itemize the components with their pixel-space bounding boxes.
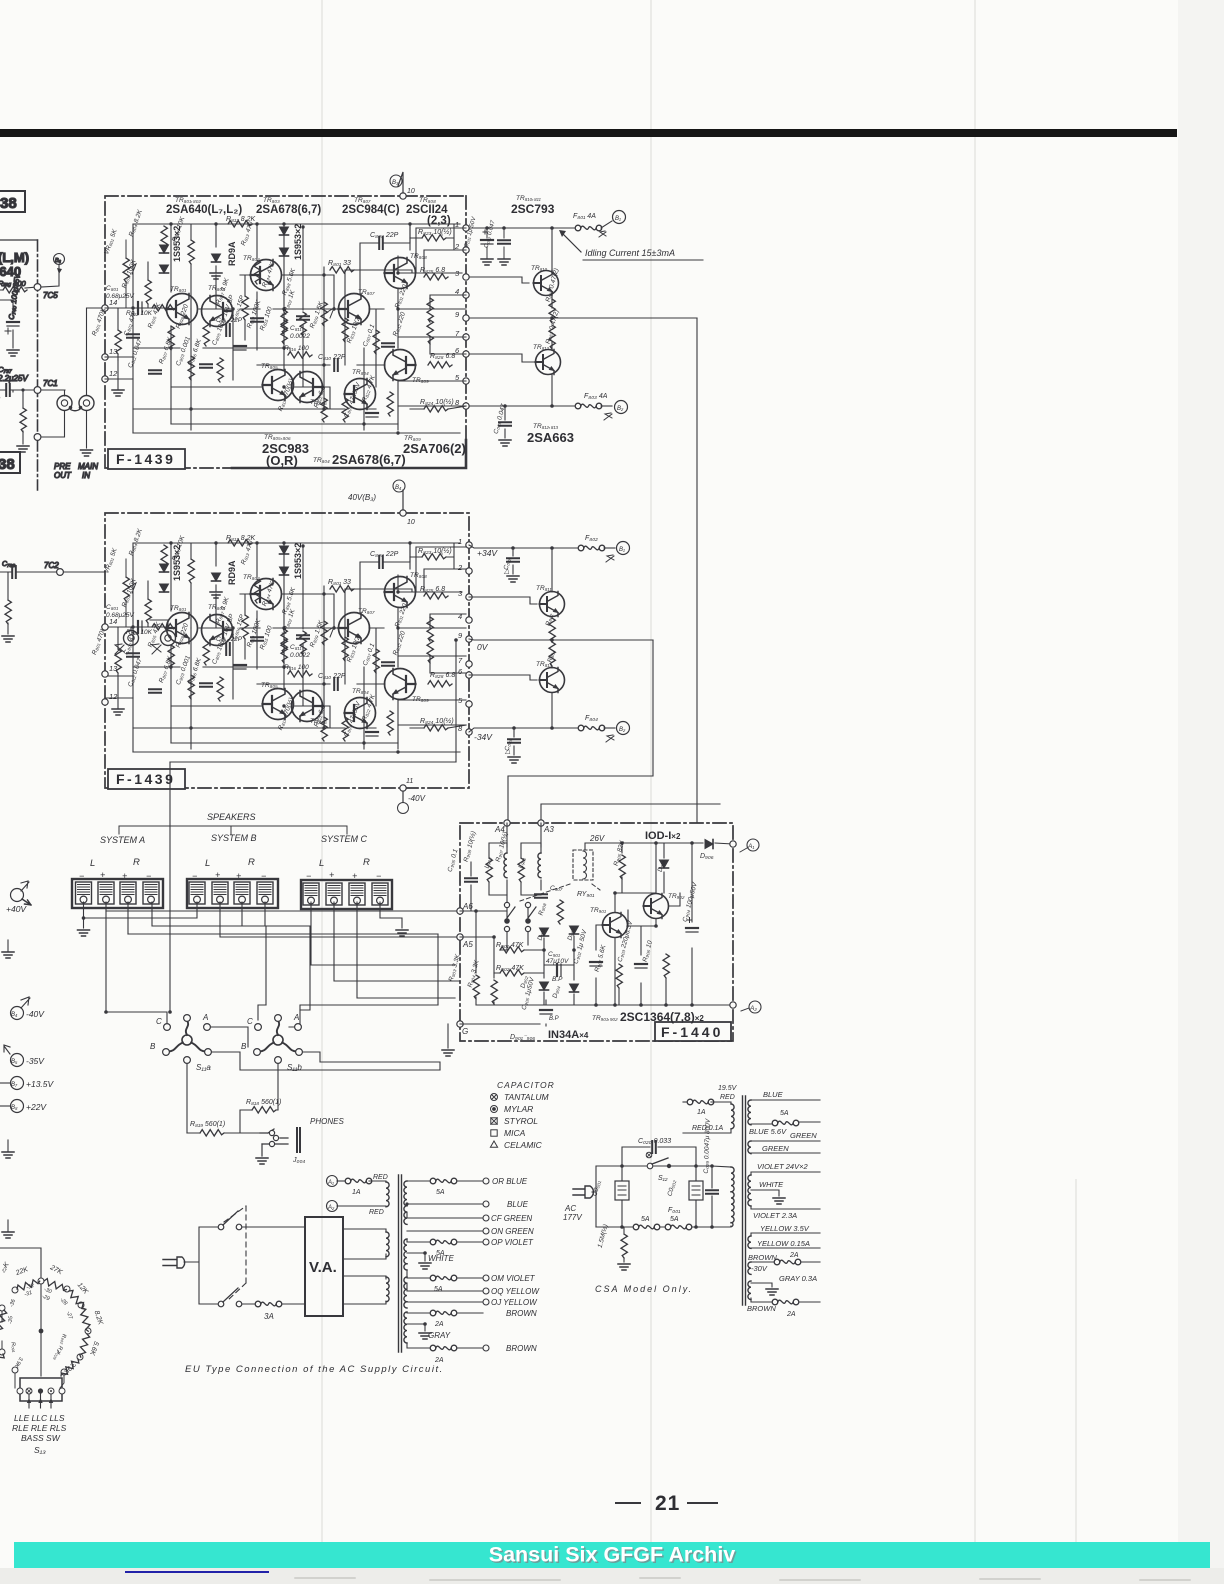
wire long return bbox=[169, 762, 171, 1012]
svg-text:-40V: -40V bbox=[408, 794, 426, 803]
pin A4 bbox=[504, 820, 510, 826]
capacitor C904 100u50V bbox=[686, 928, 698, 932]
svg-text:1: 1 bbox=[458, 537, 462, 546]
capacitor C038 bbox=[507, 558, 519, 562]
terminal -40V bbox=[11, 1007, 24, 1020]
svg-text:F-1439: F-1439 bbox=[116, 771, 175, 787]
fuse 5A csa bbox=[633, 1224, 660, 1230]
svg-text:GREEN: GREEN bbox=[762, 1144, 789, 1153]
TR812 collector/emitter bbox=[551, 341, 553, 406]
pin A6 bbox=[457, 908, 463, 914]
csa circuit wires bbox=[592, 1147, 731, 1233]
svg-text:TR₈₁₂: TR₈₁₂ bbox=[533, 344, 549, 351]
svg-text:A₂: A₂ bbox=[749, 1005, 757, 1012]
svg-text:F₈₀₂: F₈₀₂ bbox=[585, 535, 598, 542]
connector box 38 (lower) bbox=[0, 452, 20, 473]
svg-text:TR₈₀₁: TR₈₀₁ bbox=[170, 286, 186, 293]
wire TR811 collector and emitter bbox=[551, 548, 553, 618]
inductor L901 bbox=[538, 853, 541, 878]
svg-text:1A: 1A bbox=[697, 1109, 706, 1116]
wires V.A. to primary bbox=[343, 1229, 386, 1304]
svg-text:B₁: B₁ bbox=[615, 216, 621, 222]
svg-text:5.6K: 5.6K bbox=[88, 1340, 100, 1356]
svg-text:VIOLET 24V×2: VIOLET 24V×2 bbox=[757, 1162, 808, 1171]
ground below G bbox=[447, 1024, 449, 1048]
resistor 12K bbox=[67, 1289, 88, 1311]
svg-text:CAPACITOR: CAPACITOR bbox=[497, 1080, 555, 1090]
transistor TR810 bbox=[534, 271, 559, 296]
svg-text:R₈₃₂ 220: R₈₃₂ 220 bbox=[392, 311, 407, 337]
svg-text:-35V: -35V bbox=[26, 1056, 45, 1066]
diode D905 bbox=[660, 860, 669, 868]
svg-text:B₆: B₆ bbox=[55, 258, 62, 264]
fuse 2A brown bbox=[430, 1310, 457, 1316]
stray left components bbox=[0, 1261, 11, 1274]
svg-text:VIOLET 2.3A: VIOLET 2.3A bbox=[753, 1211, 797, 1220]
ground A minus bbox=[84, 902, 198, 918]
svg-text:+: + bbox=[329, 870, 334, 880]
diode D903 bbox=[570, 926, 579, 934]
capacitor C037 1u50V bbox=[481, 240, 493, 244]
pins 12-14 left edge bbox=[102, 305, 108, 382]
svg-text:S₁₃: S₁₃ bbox=[34, 1445, 46, 1455]
svg-text:F₀₀₁: F₀₀₁ bbox=[668, 1207, 681, 1214]
fuse 2A bottom csa bbox=[772, 1299, 799, 1305]
svg-text:B.P: B.P bbox=[552, 976, 563, 983]
svg-text:V.A.: V.A. bbox=[309, 1259, 337, 1276]
bottom teal banner bbox=[14, 1542, 1210, 1568]
svg-text:OUT: OUT bbox=[54, 471, 72, 480]
fuse 5A violet bbox=[430, 1239, 457, 1245]
svg-text:177V: 177V bbox=[563, 1213, 582, 1222]
wire pin1 to fuse bbox=[469, 227, 578, 229]
pins right edge bbox=[466, 542, 472, 735]
svg-text:3A: 3A bbox=[264, 1312, 274, 1321]
resistor R771 47K bbox=[22, 390, 24, 444]
svg-text:-30V: -30V bbox=[751, 1264, 768, 1273]
svg-text:2A: 2A bbox=[434, 1321, 444, 1328]
fuse F001 5A bbox=[665, 1224, 692, 1230]
terminal A2 bbox=[327, 1201, 338, 1212]
fuse 5A blue bbox=[772, 1120, 799, 1126]
svg-text:B₂: B₂ bbox=[617, 406, 624, 412]
wire TR813 bbox=[551, 666, 553, 728]
resistor R908 10(1/2) bbox=[486, 858, 492, 882]
svg-text:TR₈₁₀: TR₈₁₀ bbox=[531, 265, 547, 272]
block border F-1439 bbox=[105, 196, 466, 468]
svg-text:10: 10 bbox=[407, 188, 415, 195]
svg-text:S₁₁b: S₁₁b bbox=[287, 1063, 302, 1072]
svg-text:1S953×2: 1S953×2 bbox=[293, 224, 303, 260]
svg-text:B₇: B₇ bbox=[11, 1082, 18, 1088]
output terminals bbox=[483, 1178, 489, 1351]
capacitor C029 bbox=[706, 1190, 718, 1194]
relay switch contacts bbox=[504, 902, 536, 931]
svg-text:R₀₉₁: R₀₉₁ bbox=[9, 1342, 17, 1353]
svg-text:A₂: A₂ bbox=[327, 1205, 335, 1211]
ground white csa bbox=[773, 1198, 785, 1204]
svg-text:F-1439: F-1439 bbox=[116, 451, 175, 467]
rotary ring contacts bbox=[0, 1278, 91, 1375]
svg-text:B: B bbox=[150, 1042, 156, 1051]
ground A bbox=[78, 930, 90, 936]
svg-text:TR₈₀₈: TR₈₀₈ bbox=[419, 197, 436, 204]
connector box bbox=[20, 1378, 62, 1401]
svg-text:3: 3 bbox=[458, 589, 463, 598]
svg-text:CELAMIC: CELAMIC bbox=[504, 1140, 543, 1150]
svg-text:WHITE: WHITE bbox=[428, 1254, 454, 1263]
transistor TR802 bbox=[202, 296, 233, 327]
svg-text:1A: 1A bbox=[352, 1189, 361, 1196]
svg-text:C₉₀₃ 220μ6.3V: C₉₀₃ 220μ6.3V bbox=[617, 920, 635, 963]
fuse 1A bbox=[337, 1180, 348, 1182]
svg-text:A3: A3 bbox=[543, 825, 554, 834]
wire loop x653 bbox=[508, 640, 653, 823]
svg-text:C0₀₀₂: C0₀₀₂ bbox=[667, 1179, 678, 1197]
svg-text:5A: 5A bbox=[780, 1110, 789, 1117]
svg-text:21: 21 bbox=[655, 1492, 680, 1515]
svg-text:12: 12 bbox=[109, 692, 118, 701]
svg-text:C₇₄₀ 100μ35V: C₇₄₀ 100μ35V bbox=[7, 272, 22, 320]
csa primary main bbox=[731, 1167, 734, 1192]
svg-text:R₈₂₃ 10(½): R₈₂₃ 10(½) bbox=[418, 228, 452, 236]
capacitor C0002 bbox=[689, 1181, 703, 1200]
resistor R862 bbox=[549, 618, 555, 642]
svg-text:9: 9 bbox=[455, 310, 460, 319]
svg-text:S₁₁a: S₁₁a bbox=[196, 1063, 211, 1072]
terminal A1 bbox=[327, 1176, 338, 1187]
svg-text:SYSTEM B: SYSTEM B bbox=[211, 833, 257, 843]
wire pin6 to TR812 base bbox=[469, 354, 535, 362]
svg-text:C₇₃₈: C₇₃₈ bbox=[2, 561, 15, 568]
svg-text:BLUE 5.6V: BLUE 5.6V bbox=[749, 1127, 787, 1136]
svg-text:12K: 12K bbox=[76, 1282, 90, 1296]
wire 7C1 to jack bbox=[41, 390, 65, 396]
svg-text:J₀₀₄: J₀₀₄ bbox=[292, 1157, 305, 1164]
transistor TR801 bbox=[167, 294, 198, 325]
svg-text:0.68μ25V: 0.68μ25V bbox=[106, 293, 134, 300]
bracket bbox=[119, 826, 347, 834]
svg-text:C: C bbox=[156, 1017, 162, 1026]
terminal B2 bbox=[604, 727, 615, 729]
switch contact upper bbox=[218, 1224, 224, 1230]
svg-text:PHONES: PHONES bbox=[310, 1117, 344, 1126]
svg-text:TR₉₀₁,₉₀₂: TR₉₀₁,₉₀₂ bbox=[592, 1015, 618, 1022]
svg-text:B₅: B₅ bbox=[11, 1059, 18, 1065]
terminal B6 bbox=[54, 254, 65, 265]
svg-text:R₉₀₆ 10: R₉₀₆ 10 bbox=[642, 940, 654, 963]
svg-text:OJ YELLOW: OJ YELLOW bbox=[491, 1298, 538, 1307]
ground low bbox=[2, 1152, 14, 1158]
wire y804 to supply block bbox=[541, 804, 720, 823]
svg-text:GRAY 0.3A: GRAY 0.3A bbox=[779, 1274, 817, 1283]
svg-text:R⋡₀₂₈: R⋡₀₂₈ bbox=[51, 1345, 64, 1362]
svg-text:OR BLUE: OR BLUE bbox=[492, 1177, 528, 1186]
svg-text:+34V: +34V bbox=[477, 548, 498, 558]
svg-text:C₉₀₇: C₉₀₇ bbox=[550, 885, 563, 892]
resistor left arc lower bbox=[0, 1352, 6, 1374]
label box F-1439 bbox=[108, 449, 185, 469]
svg-text:IOD-I×2: IOD-I×2 bbox=[645, 830, 681, 842]
resistor 5.6K bbox=[78, 1333, 90, 1358]
jack MAIN IN bbox=[79, 396, 94, 411]
relay RY901 bbox=[573, 850, 593, 880]
selector switch S11b bbox=[254, 1015, 303, 1064]
pins 12-14 left edge bbox=[102, 624, 108, 705]
svg-text:R₈₂₈ 6.8: R₈₂₈ 6.8 bbox=[430, 353, 455, 360]
svg-text:10: 10 bbox=[407, 519, 415, 526]
primary winding EU lower bbox=[386, 1277, 389, 1302]
svg-text:S₁₂: S₁₂ bbox=[658, 1175, 668, 1182]
svg-text:R₉₀₄ 3.3K: R₉₀₄ 3.3K bbox=[467, 959, 481, 988]
TR810 collector/emitter bbox=[551, 228, 553, 308]
svg-text:12: 12 bbox=[109, 369, 118, 378]
svg-text:2SA706(2): 2SA706(2) bbox=[403, 441, 466, 456]
svg-text:D₉₀₁: D₉₀₁ bbox=[537, 928, 547, 941]
pin 10 bbox=[400, 510, 406, 516]
wires from speaker terminals bbox=[84, 762, 461, 1133]
svg-text:TANTALUM: TANTALUM bbox=[504, 1092, 549, 1102]
transistor TR901 bbox=[603, 913, 628, 938]
svg-text:C₈₀₈ 22P: C₈₀₈ 22P bbox=[370, 232, 399, 239]
svg-text:2.2μ25V: 2.2μ25V bbox=[0, 374, 28, 383]
svg-text:2SC1364(7,8)×2: 2SC1364(7,8)×2 bbox=[620, 1010, 704, 1024]
svg-text:27K: 27K bbox=[48, 1264, 63, 1277]
svg-text:TR₈₀₄: TR₈₀₄ bbox=[313, 457, 330, 464]
pin A5 bbox=[457, 934, 463, 940]
svg-text:OP VIOLET: OP VIOLET bbox=[491, 1238, 534, 1247]
secondary output wires bbox=[407, 1181, 483, 1348]
csa secondary outputs bbox=[751, 1100, 820, 1302]
svg-text:R₈₀₇ 6.8K: R₈₀₇ 6.8K bbox=[158, 336, 174, 365]
diode D901 bbox=[540, 928, 549, 936]
svg-text:B₃: B₃ bbox=[392, 180, 399, 186]
svg-text:A: A bbox=[202, 1013, 208, 1022]
csa secondary windings bbox=[748, 1100, 751, 1125]
wire -34V rail bbox=[469, 728, 578, 732]
svg-text:RD9A: RD9A bbox=[227, 241, 237, 266]
fuse 1A csa bbox=[683, 1101, 690, 1103]
transistor TR813 bbox=[540, 668, 565, 693]
svg-text:R₈₀₃ 100K: R₈₀₃ 100K bbox=[121, 258, 138, 289]
AC plug EU bbox=[163, 1257, 185, 1268]
resistor R903 3.3K bbox=[473, 975, 479, 999]
resistor R906 10 bbox=[663, 954, 669, 978]
svg-text:BASS SW: BASS SW bbox=[21, 1433, 61, 1443]
faint fold lines bbox=[322, 0, 1076, 1584]
svg-text:TR₈₀₉: TR₈₀₉ bbox=[412, 377, 429, 384]
svg-text:-34V: -34V bbox=[474, 732, 493, 742]
jack PRE OUT bbox=[57, 396, 72, 411]
block border F-1440 bbox=[460, 823, 733, 1041]
svg-text:A₁: A₁ bbox=[327, 1180, 334, 1186]
switch S12 bbox=[647, 1163, 653, 1169]
svg-text:B₈: B₈ bbox=[11, 1105, 18, 1111]
primary winding EU upper bbox=[386, 1232, 389, 1257]
pin A3 bbox=[538, 820, 544, 826]
svg-text:R: R bbox=[133, 857, 140, 868]
svg-text:B₁: B₁ bbox=[619, 547, 625, 553]
resistor R907 5.6K bbox=[616, 964, 622, 988]
speaker terminal board A bbox=[72, 879, 163, 908]
wire plug to switches bbox=[184, 1206, 305, 1304]
svg-text:F-1440: F-1440 bbox=[661, 1024, 723, 1040]
ground gray bbox=[419, 1333, 431, 1339]
svg-text:5A: 5A bbox=[434, 1286, 443, 1293]
terminal B2 top bbox=[601, 221, 612, 228]
svg-text:2SA640(L₇,L₂): 2SA640(L₇,L₂) bbox=[166, 204, 242, 216]
svg-text:CF GREEN: CF GREEN bbox=[491, 1214, 532, 1223]
svg-text:TR₈₀₈: TR₈₀₈ bbox=[410, 253, 427, 260]
selector switch S11a bbox=[163, 1015, 212, 1064]
diode D904 bbox=[570, 984, 579, 992]
svg-text:C₀₃₈: C₀₃₈ bbox=[503, 556, 513, 570]
svg-text:L: L bbox=[90, 858, 95, 869]
svg-text:IN34A×4: IN34A×4 bbox=[548, 1029, 589, 1041]
fuse F803 4A bbox=[575, 403, 602, 409]
wire from preamp bbox=[0, 1248, 41, 1376]
zener 1S953x2 bbox=[160, 245, 169, 253]
speaker terminal board B bbox=[187, 879, 278, 908]
svg-text:R₈₁₇ 470(½): R₈₁₇ 470(½) bbox=[276, 377, 295, 412]
svg-text:GRAY: GRAY bbox=[428, 1331, 451, 1340]
svg-text:D₉₀₄: D₉₀₄ bbox=[552, 985, 562, 999]
svg-text:F₈₀₃ 4A: F₈₀₃ 4A bbox=[584, 393, 608, 400]
svg-text:9: 9 bbox=[458, 631, 463, 640]
ground white bbox=[419, 1263, 431, 1269]
terminal +40V bbox=[11, 889, 32, 906]
ground inside bbox=[112, 390, 124, 396]
capacitor C0001 bbox=[615, 1181, 629, 1200]
svg-text:MYLAR: MYLAR bbox=[504, 1104, 533, 1114]
svg-text:R₈₄₄ 47K: R₈₄₄ 47K bbox=[261, 261, 277, 288]
terminal +22V bbox=[11, 1100, 24, 1113]
svg-text:BROWN: BROWN bbox=[506, 1344, 537, 1353]
wire 0V rail bbox=[469, 639, 653, 640]
svg-text:26V: 26V bbox=[589, 834, 605, 843]
resistor R907 10(1/2) bbox=[518, 858, 524, 882]
svg-text:CSA Model Only.: CSA Model Only. bbox=[595, 1284, 693, 1294]
svg-text:MICA: MICA bbox=[504, 1128, 526, 1138]
switch contact lower bbox=[218, 1301, 224, 1307]
wire pin3 to TR811 base bbox=[469, 597, 537, 604]
svg-text:-27: -27 bbox=[65, 1311, 74, 1321]
svg-text:C0₀₀₁: C0₀₀₁ bbox=[592, 1180, 603, 1197]
svg-text:0V: 0V bbox=[477, 642, 489, 652]
svg-text:7C5: 7C5 bbox=[43, 291, 58, 300]
svg-text:D₉₀₃: D₉₀₃ bbox=[567, 927, 577, 941]
svg-text:5A: 5A bbox=[436, 1189, 445, 1196]
transformer V.A. box bbox=[305, 1217, 343, 1316]
svg-text:ON GREEN: ON GREEN bbox=[491, 1227, 534, 1236]
svg-text:C₉₀₁: C₉₀₁ bbox=[548, 951, 560, 958]
svg-text:C: C bbox=[247, 1017, 253, 1026]
wire pin9 long feedback bbox=[469, 317, 697, 319]
pin G bbox=[457, 1021, 463, 1027]
svg-text:YELLOW 3.5V: YELLOW 3.5V bbox=[760, 1224, 810, 1233]
transistor TR902 bbox=[644, 894, 669, 919]
svg-text:D₉₀₅: D₉₀₅ bbox=[657, 858, 667, 872]
capacitor C907 bbox=[535, 894, 547, 898]
svg-text:+40V: +40V bbox=[6, 904, 27, 914]
svg-text:2SC984(C): 2SC984(C) bbox=[342, 204, 400, 216]
svg-text:AC: AC bbox=[564, 1204, 576, 1213]
svg-text:IN: IN bbox=[82, 471, 90, 480]
svg-text:R: R bbox=[248, 857, 255, 868]
terminal B1 bbox=[604, 547, 615, 549]
svg-text:40V(B₃): 40V(B₃) bbox=[348, 493, 376, 502]
resistor left arc upper bbox=[0, 1309, 7, 1334]
svg-text:BROWN: BROWN bbox=[748, 1253, 777, 1262]
svg-text:A5: A5 bbox=[462, 940, 473, 949]
node 7C1 bbox=[34, 387, 41, 394]
svg-text:LLE LLC LLS: LLE LLC LLS bbox=[14, 1413, 65, 1423]
transistor TR812 bbox=[536, 350, 561, 375]
diode D804 bbox=[280, 248, 289, 256]
svg-text:F₈₀₁ 4A: F₈₀₁ 4A bbox=[573, 213, 596, 220]
jumper link bbox=[70, 409, 80, 411]
svg-text:D₉₀₆: D₉₀₆ bbox=[700, 853, 714, 860]
svg-text:C₈₁₂ 0.047: C₈₁₂ 0.047 bbox=[127, 338, 144, 369]
capacitor C039 0.047 bbox=[499, 422, 511, 426]
resistor 3.9K bbox=[59, 1357, 80, 1378]
svg-text:2A: 2A bbox=[786, 1311, 796, 1318]
svg-text:22K: 22K bbox=[14, 1266, 29, 1277]
terminal A2 bbox=[730, 1002, 736, 1008]
polarity marks bbox=[79, 870, 381, 881]
svg-text:RY₉₀₁: RY₉₀₁ bbox=[577, 891, 595, 898]
svg-text:B.P: B.P bbox=[549, 1016, 559, 1022]
csa labels bbox=[747, 1090, 817, 1313]
svg-text:TR₈₀₄: TR₈₀₄ bbox=[352, 369, 369, 376]
svg-text:5A: 5A bbox=[641, 1216, 650, 1223]
svg-text:R₈₁₃ 470: R₈₁₃ 470 bbox=[240, 221, 255, 247]
fuse F801 4A bbox=[575, 225, 602, 231]
preamp block corner bbox=[0, 239, 38, 241]
capacitor C902 1u50V bbox=[590, 962, 602, 966]
svg-text:TR₈₀₅,₈₀₆: TR₈₀₅,₈₀₆ bbox=[264, 434, 291, 441]
terminal +13.5V bbox=[11, 1077, 24, 1090]
fuse 3A bbox=[255, 1301, 282, 1307]
svg-text:R₈₂₄ 10(½): R₈₂₄ 10(½) bbox=[420, 398, 454, 406]
interior (same topology as upper block) bbox=[91, 527, 466, 753]
svg-text:C₇₃₇: C₇₃₇ bbox=[0, 365, 12, 374]
svg-text:6: 6 bbox=[458, 667, 463, 676]
resistor 1.5M bbox=[621, 1234, 627, 1258]
blue underline mark bbox=[126, 1571, 268, 1573]
svg-text:2SC793: 2SC793 bbox=[511, 202, 555, 216]
svg-text:F₈₀₄: F₈₀₄ bbox=[585, 715, 598, 722]
svg-text:B: B bbox=[241, 1042, 247, 1051]
csa primary upper bbox=[731, 1104, 734, 1129]
svg-text:BROWN: BROWN bbox=[747, 1304, 776, 1313]
label box F-1439 bbox=[108, 769, 185, 789]
svg-text:13: 13 bbox=[109, 664, 118, 673]
svg-text:C₀₃₂ 0.047: C₀₃₂ 0.047 bbox=[484, 219, 497, 248]
fuse 2A bottom bbox=[430, 1345, 457, 1351]
svg-text:G: G bbox=[462, 1027, 468, 1036]
svg-text:TR₉₀₁: TR₉₀₁ bbox=[590, 907, 606, 914]
svg-text:EU Type Connection of the AC S: EU Type Connection of the AC Supply Circ… bbox=[185, 1364, 444, 1375]
transistor TR805 bbox=[263, 370, 294, 401]
terminal A1 bbox=[730, 841, 736, 847]
svg-text:(L,M): (L,M) bbox=[0, 250, 29, 265]
svg-text:RED: RED bbox=[720, 1094, 735, 1101]
svg-text:+13.5V: +13.5V bbox=[26, 1079, 55, 1089]
svg-text:5A: 5A bbox=[670, 1216, 679, 1223]
svg-text:R₈₁₈ 560(1): R₈₁₈ 560(1) bbox=[246, 1099, 281, 1106]
svg-text:38: 38 bbox=[0, 456, 15, 473]
